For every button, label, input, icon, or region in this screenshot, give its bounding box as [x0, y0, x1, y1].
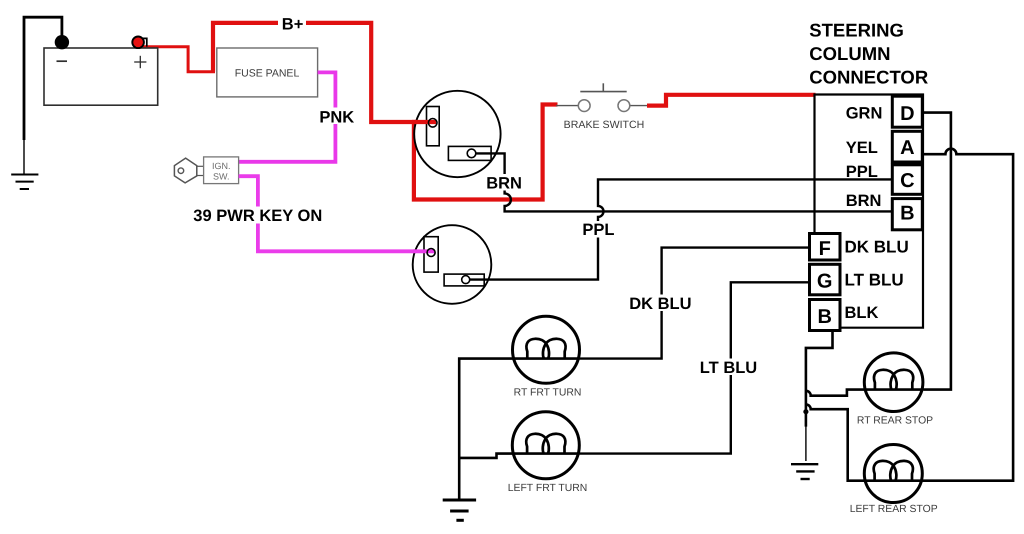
bulb RT REAR STOP — [864, 353, 923, 412]
fuse panel F1 — [217, 48, 318, 97]
connector pin C — [892, 165, 922, 195]
svg-text:GRN: GRN — [846, 104, 883, 122]
svg-text:BRN: BRN — [486, 174, 522, 192]
wire red brake switch to connector — [647, 95, 816, 106]
wire battery positive to fuse panel (red) — [143, 47, 215, 72]
connector pin D — [892, 96, 922, 127]
bulb LEFT REAR STOP — [864, 445, 922, 503]
svg-text:DK BLU: DK BLU — [845, 237, 909, 256]
brake switch S1 lever — [580, 91, 626, 93]
svg-text:LT BLU: LT BLU — [845, 271, 904, 290]
wire YEL: pin A to LEFT REAR STOP with hop — [922, 149, 1013, 481]
svg-text:BRAKE SWITCH: BRAKE SWITCH — [564, 119, 645, 131]
svg-text:C: C — [900, 170, 914, 192]
svg-text:BLK: BLK — [845, 304, 879, 322]
turn flasher pin 2 — [462, 276, 470, 284]
svg-text:B: B — [817, 306, 831, 328]
turn flasher U2 — [413, 225, 492, 304]
wire RT REAR STOP ground lead with hook — [806, 390, 864, 396]
connector pin B (BLK) — [810, 300, 841, 331]
svg-text:STEERING: STEERING — [809, 20, 904, 41]
svg-text:PNK: PNK — [319, 108, 354, 126]
svg-text:B+: B+ — [282, 15, 304, 33]
connector pin B — [892, 199, 922, 230]
svg-text:LEFT FRT TURN: LEFT FRT TURN — [508, 483, 587, 494]
hazard flasher pin 1 — [428, 119, 437, 128]
connector pin A — [892, 131, 922, 162]
wire B+ bus (red) — [213, 23, 433, 122]
svg-text:FUSE PANEL: FUSE PANEL — [235, 68, 300, 80]
svg-text:PPL: PPL — [582, 221, 614, 239]
svg-text:YEL: YEL — [846, 139, 878, 157]
wire LT BLU (pin G to LEFT FRT TURN) — [579, 282, 809, 453]
brake switch terminal 2 — [618, 100, 630, 112]
brake switch lead right — [630, 105, 648, 107]
svg-text:A: A — [900, 137, 914, 159]
wire red into hazard flasher pin — [412, 120, 436, 124]
ground G3 (front bulbs) — [443, 500, 476, 520]
svg-text:SW.: SW. — [213, 172, 230, 182]
wire DK BLU (pin F to RT FRT TURN) — [580, 248, 810, 359]
wire magenta into turn flasher pin — [413, 249, 435, 253]
wire LEFT REAR STOP ground lead with hook — [806, 404, 865, 480]
label 39 PWR KEY ON — [191, 207, 325, 224]
wire PPL (turn flasher to connector pin C) with hop over BRN — [470, 179, 893, 279]
wire battery negative to ground — [24, 17, 62, 140]
wire ground lead thin — [23, 139, 25, 174]
ignition switch key — [174, 158, 196, 183]
wire BRN (hazard flasher to connector pin B) with hop over red — [475, 153, 892, 211]
battery negative terminal — [55, 35, 69, 49]
wire RT FRT TURN ground lead — [459, 359, 512, 500]
svg-text:COLUMN: COLUMN — [809, 43, 890, 64]
battery B1 — [44, 48, 158, 105]
label PNK — [317, 108, 357, 125]
svg-text:B: B — [900, 203, 914, 225]
battery positive terminal — [132, 37, 144, 49]
svg-text:IGN.: IGN. — [212, 161, 231, 171]
steering column connector box — [815, 95, 924, 328]
wire BLK: pin B to ground — [806, 331, 833, 427]
svg-text:F: F — [819, 238, 831, 260]
brake switch terminal 1 — [578, 100, 590, 112]
brake switch lead left — [556, 105, 578, 107]
wire thin ground lead — [805, 425, 807, 461]
svg-text:LEFT REAR STOP: LEFT REAR STOP — [850, 504, 938, 515]
svg-text:DK BLU: DK BLU — [629, 295, 691, 313]
label B+ — [278, 15, 306, 32]
hazard flasher bottom element — [448, 146, 491, 160]
svg-text:RT FRT TURN: RT FRT TURN — [514, 388, 582, 399]
wire 39 PWR KEY ON (magenta, ignition switch to turn flasher) — [239, 176, 430, 251]
label PPL — [580, 221, 617, 238]
turn flasher bottom element — [444, 274, 484, 286]
label BRN — [484, 174, 524, 191]
svg-text:CONNECTOR: CONNECTOR — [809, 67, 928, 88]
label LT BLU — [697, 359, 761, 376]
hazard flasher pin 2 — [467, 149, 476, 158]
label DK BLU — [627, 295, 693, 312]
svg-text:G: G — [817, 271, 833, 293]
svg-text:RT REAR STOP: RT REAR STOP — [857, 415, 933, 426]
svg-text:39 PWR KEY ON: 39 PWR KEY ON — [193, 207, 322, 225]
wire LEFT FRT TURN ground lead — [458, 454, 512, 458]
connector pin G — [810, 264, 841, 295]
wire PNK (fuse panel to ignition switch) — [239, 72, 336, 161]
bulb LEFT FRT TURN — [512, 412, 579, 479]
connector pin F — [810, 234, 841, 261]
hazard flasher U1 — [414, 91, 500, 177]
svg-text:D: D — [900, 103, 914, 125]
turn flasher pin 1 — [427, 249, 435, 257]
svg-text:PPL: PPL — [846, 163, 878, 181]
ignition switch body IGN. SW. — [204, 157, 239, 184]
svg-text:LT BLU: LT BLU — [700, 359, 757, 377]
svg-text:BRN: BRN — [846, 192, 882, 210]
wire GRN: pin D to RT REAR STOP — [922, 113, 951, 390]
battery positive terminal tab — [141, 38, 147, 46]
hazard flasher left element — [427, 107, 440, 146]
ground G2 (rear bulbs) — [791, 464, 818, 479]
junction dot on ground wire — [803, 409, 808, 414]
ground G1 (battery) — [11, 175, 38, 190]
wire red branch to brake switch — [414, 105, 558, 200]
turn flasher left element — [424, 237, 438, 272]
bulb RT FRT TURN — [513, 316, 580, 383]
